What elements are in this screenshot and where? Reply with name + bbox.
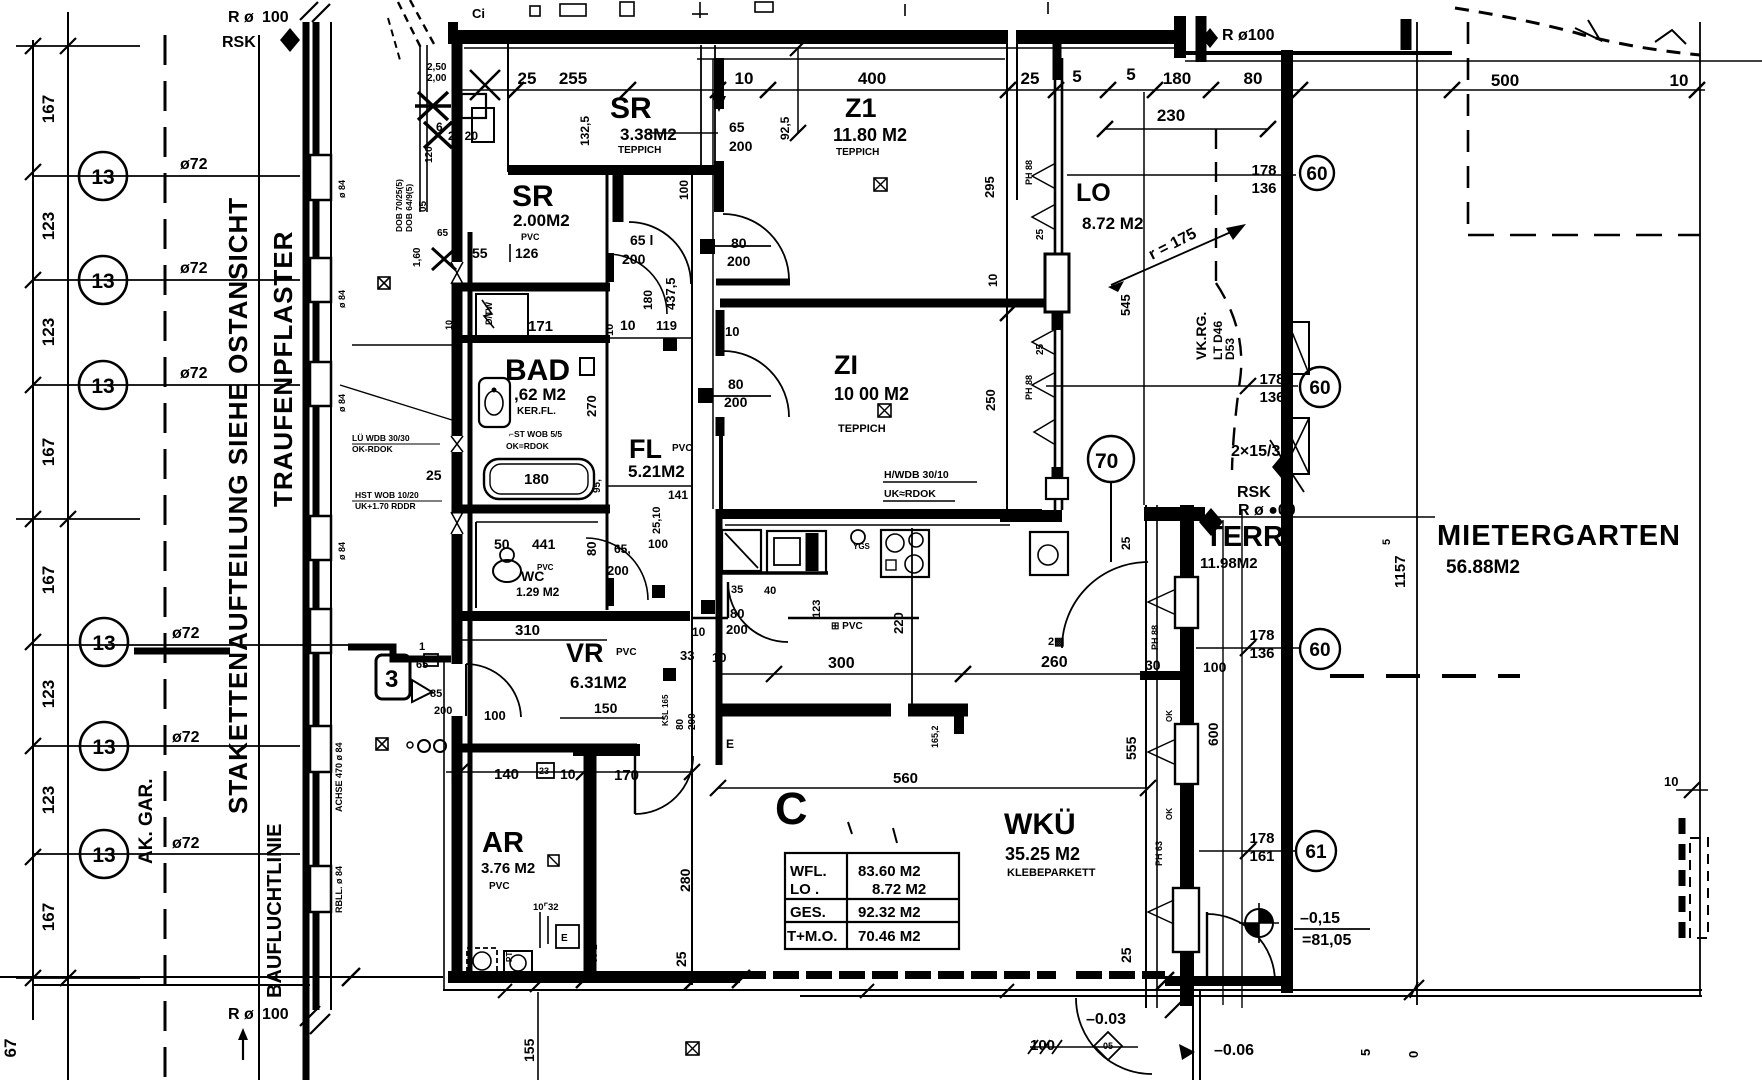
heavy wall strip xyxy=(303,22,310,1080)
svg-text:–0,15: –0,15 xyxy=(1300,910,1340,927)
svg-text:5.21M2: 5.21M2 xyxy=(628,462,685,481)
svg-text:DOB 64/9(5): DOB 64/9(5) xyxy=(404,184,414,232)
svg-text:10: 10 xyxy=(560,766,576,782)
svg-text:=81,05: =81,05 xyxy=(1302,932,1351,949)
door WKUE to TERR xyxy=(1062,562,1148,648)
svg-text:178: 178 xyxy=(1251,162,1276,179)
Z1 ROOMS xyxy=(610,40,1144,510)
svg-text:LO .: LO . xyxy=(790,881,819,898)
svg-text:13: 13 xyxy=(91,270,114,293)
svg-text:–0.03: –0.03 xyxy=(1086,1011,1126,1028)
svg-text:280: 280 xyxy=(677,868,693,892)
niche line at SR top xyxy=(507,44,509,172)
svg-text:136: 136 xyxy=(1251,180,1276,197)
svg-text:100: 100 xyxy=(484,708,506,723)
svg-text:35.25 M2: 35.25 M2 xyxy=(1005,844,1080,864)
svg-text:10: 10 xyxy=(620,317,636,333)
svg-text:YGS: YGS xyxy=(853,542,871,551)
svg-text:OK: OK xyxy=(1165,808,1174,820)
svg-text:D/TW: D/TW xyxy=(484,302,494,325)
svg-text:UK+1.70 RDDR: UK+1.70 RDDR xyxy=(355,501,416,511)
svg-text:555: 555 xyxy=(1123,736,1139,760)
svg-text:25: 25 xyxy=(1035,343,1046,355)
svg-text:VK.RG.: VK.RG. xyxy=(1193,312,1209,360)
svg-text:BAUFLUCHTLINIE: BAUFLUCHTLINIE xyxy=(264,824,286,998)
outside entrance: 3 box and walk xyxy=(348,647,451,659)
wall below BAD xyxy=(452,505,610,514)
svg-text:ø72: ø72 xyxy=(172,729,200,746)
svg-text:200: 200 xyxy=(726,622,748,637)
circled 13 grid bubbles xyxy=(79,152,128,878)
svg-text:E: E xyxy=(726,737,734,751)
svg-text:10: 10 xyxy=(986,273,1000,287)
star marks xyxy=(415,92,452,148)
svg-text:ACHSE 470 ø 84: ACHSE 470 ø 84 xyxy=(334,742,344,812)
svg-text:AR: AR xyxy=(482,827,524,859)
outer top wall heavy xyxy=(451,30,1008,44)
svg-text:250: 250 xyxy=(983,389,998,411)
inner wall line xyxy=(468,232,473,975)
area table xyxy=(785,853,959,949)
thin line under top wall xyxy=(464,47,1180,49)
svg-text:65: 65 xyxy=(416,659,428,671)
thin boundary line xyxy=(258,35,260,1080)
dims row xyxy=(494,766,639,784)
dashed rect bottom right xyxy=(1679,818,1686,945)
diamond at TERR top xyxy=(1199,508,1223,536)
svg-text:10: 10 xyxy=(725,324,739,339)
svg-text:30: 30 xyxy=(1145,657,1161,673)
svg-text:100: 100 xyxy=(648,537,668,551)
svg-text:13: 13 xyxy=(92,736,115,759)
svg-text:165,2: 165,2 xyxy=(930,725,940,748)
155 bottom left xyxy=(537,992,539,1080)
svg-text:5: 5 xyxy=(1126,65,1135,84)
washbasin xyxy=(479,378,510,427)
svg-text:D53: D53 xyxy=(1223,338,1237,360)
main dimension line xyxy=(460,89,1705,91)
vertical big labels xyxy=(136,197,298,998)
560 dim line xyxy=(718,787,1148,789)
svg-text:Z1: Z1 xyxy=(845,93,877,123)
svg-text:123: 123 xyxy=(39,786,58,814)
svg-text:200: 200 xyxy=(607,563,629,578)
svg-text:100: 100 xyxy=(262,9,289,26)
svg-text:PVC: PVC xyxy=(521,232,540,242)
wall below 171 row xyxy=(452,335,610,343)
tiny rotated labels right of wall xyxy=(334,180,347,913)
svg-text:PH 88: PH 88 xyxy=(1024,160,1034,185)
svg-text:Ci: Ci xyxy=(472,6,485,21)
small marks above top wall xyxy=(472,6,485,21)
Z1 top labels xyxy=(778,93,997,198)
svg-text:85: 85 xyxy=(430,688,442,700)
svg-text:13: 13 xyxy=(92,632,115,655)
svg-text:10⌜32: 10⌜32 xyxy=(533,902,559,913)
svg-text:95,: 95, xyxy=(592,479,603,493)
svg-text:FL: FL xyxy=(629,434,662,464)
svg-text:55: 55 xyxy=(472,245,488,261)
svg-text:40: 40 xyxy=(764,585,776,597)
AR bottom fixtures xyxy=(467,948,497,974)
svg-text:TEPPICH: TEPPICH xyxy=(618,145,661,156)
171 closet box xyxy=(476,294,528,336)
svg-text:10: 10 xyxy=(1664,774,1678,789)
dashed axis line xyxy=(164,35,167,1080)
svg-text:170: 170 xyxy=(614,767,639,784)
svg-text:200: 200 xyxy=(727,253,751,269)
svg-text:ø72: ø72 xyxy=(180,365,208,382)
svg-text:441: 441 xyxy=(532,536,556,552)
diamond 05 xyxy=(1094,1032,1122,1060)
svg-text:25: 25 xyxy=(1021,69,1040,88)
svg-text:LO: LO xyxy=(1076,179,1111,207)
svg-text:RBLL. ø 84: RBLL. ø 84 xyxy=(334,866,344,913)
svg-text:25: 25 xyxy=(426,467,442,483)
svg-text:1.29 M2: 1.29 M2 xyxy=(516,585,560,599)
svg-text:255: 255 xyxy=(559,69,587,88)
svg-text:167: 167 xyxy=(39,903,58,931)
svg-text:70.46 M2: 70.46 M2 xyxy=(858,928,921,945)
svg-text:R ø: R ø xyxy=(228,9,254,26)
svg-text:80: 80 xyxy=(731,235,747,251)
svg-text:220: 220 xyxy=(891,612,906,634)
tick lines on grid xyxy=(16,46,140,978)
dim ticks xyxy=(508,82,1705,98)
svg-text:120: 120 xyxy=(424,146,435,163)
glazing triangles xyxy=(1032,164,1054,444)
svg-text:R ø100: R ø100 xyxy=(1222,27,1275,44)
ticks bottom right xyxy=(1404,980,1424,1000)
outer left wall heavy with window gaps xyxy=(452,30,463,980)
leader lines from bubbles xyxy=(33,176,385,854)
svg-text:167: 167 xyxy=(39,438,58,466)
dashed property line right xyxy=(1467,22,1470,235)
bottom door xyxy=(1076,998,1152,1074)
main right wall xyxy=(1281,50,1293,993)
WC room xyxy=(494,536,599,599)
KITCHEN / WKUE xyxy=(692,509,1156,963)
dim texts xyxy=(518,65,1689,125)
left outside tiny labels xyxy=(352,433,419,511)
svg-text:35: 35 xyxy=(731,584,743,596)
svg-text:400: 400 xyxy=(858,69,886,88)
MIETERGARTEN xyxy=(1381,520,1681,588)
kitchen left wall xyxy=(716,509,723,765)
door arc corridor->Z1 top xyxy=(723,214,789,280)
svg-text:10 00 M2: 10 00 M2 xyxy=(834,384,909,404)
svg-text:200: 200 xyxy=(434,705,452,717)
svg-text:10: 10 xyxy=(692,625,706,639)
svg-text:60: 60 xyxy=(1306,164,1327,185)
svg-text:92.32 M2: 92.32 M2 xyxy=(858,904,921,921)
svg-text:500: 500 xyxy=(1491,71,1519,90)
svg-text:25: 25 xyxy=(1119,536,1133,550)
hatches on wall strip xyxy=(300,2,330,1034)
bottom horizontals xyxy=(0,976,443,978)
svg-text:230: 230 xyxy=(1157,106,1185,125)
heavy stub at 1400 xyxy=(1401,19,1412,50)
dim line through LO xyxy=(1143,92,1145,505)
svg-text:11.80 M2: 11.80 M2 xyxy=(833,125,907,145)
svg-text:80: 80 xyxy=(728,376,744,392)
svg-text:13: 13 xyxy=(92,844,115,867)
svg-text:HST WOB 10/20: HST WOB 10/20 xyxy=(355,490,419,500)
svg-text:2.00M2: 2.00M2 xyxy=(513,211,570,230)
fence lines top right xyxy=(1185,51,1452,55)
svg-text:70: 70 xyxy=(1095,450,1118,473)
svg-text:KER.FL.: KER.FL. xyxy=(517,406,556,417)
diamond top xyxy=(280,28,300,52)
LEFT MARGIN GRID xyxy=(0,2,443,1080)
wall below WC across corridor xyxy=(452,611,690,621)
svg-text:100: 100 xyxy=(262,1006,289,1023)
jamb below wall xyxy=(716,310,725,356)
TOP WALLS AND DIMENSION ROW xyxy=(451,2,1762,1005)
svg-text:25: 25 xyxy=(1035,228,1046,240)
wall above 171 row xyxy=(452,283,610,292)
Z1 right wall dim line xyxy=(1006,44,1008,510)
svg-text:PVC: PVC xyxy=(489,881,510,892)
svg-text:119: 119 xyxy=(656,318,677,333)
bottom lines xyxy=(443,989,1702,991)
300 260 dim line xyxy=(722,673,1148,675)
RIGHT SIDE xyxy=(342,50,1708,1080)
svg-text:10: 10 xyxy=(1670,71,1689,90)
svg-text:10: 10 xyxy=(444,320,454,330)
ticks near circle rows xyxy=(1240,378,1256,394)
svg-text:AK. GAR.: AK. GAR. xyxy=(136,779,157,865)
svg-text:LÜ WDB 30/30: LÜ WDB 30/30 xyxy=(352,433,410,443)
door jamb bar top xyxy=(613,170,624,222)
svg-text:140: 140 xyxy=(494,766,519,783)
svg-text:RSK: RSK xyxy=(1237,484,1271,501)
dimension texts rotated xyxy=(1,95,58,1058)
svg-text:⊞ PVC: ⊞ PVC xyxy=(831,621,863,632)
svg-text:300: 300 xyxy=(828,655,855,672)
survey marker xyxy=(1245,909,1273,937)
svg-text:310: 310 xyxy=(515,622,540,639)
svg-text:T+M.O.: T+M.O. xyxy=(787,928,837,945)
heavy stub on row 642 xyxy=(134,648,230,655)
window wall xyxy=(1054,58,1057,510)
svg-text:123: 123 xyxy=(39,680,58,708)
svg-text:KLEBEPARKETT: KLEBEPARKETT xyxy=(1007,867,1096,879)
LEFT ROOM STACK xyxy=(348,30,718,990)
svg-text:PH 88: PH 88 xyxy=(1150,625,1160,650)
cluster texts xyxy=(394,62,478,267)
svg-text:C: C xyxy=(775,783,808,834)
svg-text:ø72: ø72 xyxy=(180,156,208,173)
svg-text:ø72: ø72 xyxy=(172,835,200,852)
svg-text:56.88M2: 56.88M2 xyxy=(1446,557,1520,578)
WKUE labels xyxy=(775,736,1139,963)
svg-text:R ø: R ø xyxy=(228,1006,254,1023)
svg-text:65: 65 xyxy=(729,119,745,135)
svg-text:ø 84: ø 84 xyxy=(337,542,347,560)
door jamb and arc AR xyxy=(634,748,636,814)
svg-text:STAKETTENAUFTEILUNG SIEHE OS: STAKETTENAUFTEILUNG SIEHE OSTANSICHT xyxy=(223,197,253,814)
Z1 lower labels xyxy=(834,350,998,500)
svg-text:167: 167 xyxy=(39,95,58,123)
door arc corridor->Z1 lower xyxy=(723,351,789,417)
VR labels xyxy=(430,622,637,723)
svg-text:6.31M2: 6.31M2 xyxy=(570,673,627,692)
svg-text:270: 270 xyxy=(584,395,599,417)
svg-text:437,5: 437,5 xyxy=(663,277,678,310)
svg-text:KSL 165: KSL 165 xyxy=(661,694,670,726)
svg-text:100: 100 xyxy=(677,180,691,200)
top left R 100 labels xyxy=(222,9,289,1023)
svg-text:13: 13 xyxy=(91,375,114,398)
svg-text:3.76 M2: 3.76 M2 xyxy=(481,860,535,877)
svg-text:180: 180 xyxy=(524,471,549,488)
svg-text:560: 560 xyxy=(893,770,918,787)
svg-text:545: 545 xyxy=(1118,294,1133,316)
svg-text:60: 60 xyxy=(1309,378,1330,399)
svg-text:⌐ST WOB 5/5: ⌐ST WOB 5/5 xyxy=(509,429,562,439)
grid line B xyxy=(67,12,69,1080)
dia 72 labels xyxy=(172,156,208,852)
svg-text:ø 84: ø 84 xyxy=(337,290,347,308)
glazing triangles xyxy=(1148,590,1174,924)
outer face line xyxy=(443,658,445,990)
svg-text:RSK: RSK xyxy=(222,34,256,51)
jamb bars on corridor/Z1 wall xyxy=(714,58,724,109)
top-left corner stub xyxy=(448,22,458,44)
svg-text:MIETERGARTEN: MIETERGARTEN xyxy=(1437,520,1681,552)
svg-text:1,60: 1,60 xyxy=(412,247,423,267)
svg-text:25,10: 25,10 xyxy=(651,506,663,534)
svg-text:TERR: TERR xyxy=(1205,521,1284,553)
svg-text:100: 100 xyxy=(1030,1037,1055,1054)
svg-text:180: 180 xyxy=(641,290,655,310)
LO bottom wall xyxy=(1000,510,1062,522)
svg-text:10: 10 xyxy=(735,69,754,88)
svg-text:200: 200 xyxy=(729,138,753,154)
svg-text:123: 123 xyxy=(39,212,58,240)
kitchen top wall xyxy=(717,509,1042,519)
svg-text:ZI: ZI xyxy=(834,350,858,380)
svg-text:UK≈RDOK: UK≈RDOK xyxy=(884,488,936,500)
svg-text:25: 25 xyxy=(1118,947,1134,963)
svg-text:25: 25 xyxy=(673,951,689,967)
svg-text:PH 63: PH 63 xyxy=(1154,841,1164,866)
svg-text:60-L: 60-L xyxy=(589,944,599,963)
svg-text:–0.06: –0.06 xyxy=(1214,1042,1254,1059)
wall between Z1 rooms xyxy=(720,299,1048,308)
right vertical thin lines xyxy=(1416,22,1418,1005)
svg-text:65,: 65, xyxy=(614,542,631,556)
svg-text:33: 33 xyxy=(680,648,694,663)
junction ticks on bottom wall xyxy=(342,968,360,986)
svg-text:92,5: 92,5 xyxy=(778,116,792,140)
svg-text:178: 178 xyxy=(1259,371,1284,388)
svg-text:TEPPICH: TEPPICH xyxy=(838,423,886,435)
svg-text:SR: SR xyxy=(512,180,554,213)
VK RG dashed line xyxy=(1215,129,1217,283)
small box 01 xyxy=(456,94,486,118)
svg-text:80: 80 xyxy=(584,542,599,556)
svg-text:ø 84: ø 84 xyxy=(337,394,347,412)
svg-text:25: 25 xyxy=(518,69,537,88)
svg-text:123: 123 xyxy=(811,600,823,618)
svg-text:1157: 1157 xyxy=(1392,555,1409,588)
grid circles 60/61 xyxy=(1296,156,1340,871)
svg-text:60: 60 xyxy=(1309,640,1330,661)
svg-text:GES.: GES. xyxy=(790,904,826,921)
svg-text:8.72 M2: 8.72 M2 xyxy=(872,881,926,898)
svg-text:61: 61 xyxy=(1305,842,1327,863)
svg-text:11.98M2: 11.98M2 xyxy=(1200,555,1258,572)
SR 2.00 labels xyxy=(472,180,570,261)
labels 80/200 xyxy=(692,606,748,639)
svg-text:67: 67 xyxy=(1,1039,20,1058)
TERR top wall xyxy=(1144,507,1205,521)
small dim cluster over VR xyxy=(607,180,691,578)
svg-text:PT: PT xyxy=(505,952,514,962)
FL labels xyxy=(628,434,693,534)
svg-text:3.38M2: 3.38M2 xyxy=(620,125,677,144)
window X marks in gaps xyxy=(451,262,463,534)
door jamb mid xyxy=(608,253,614,282)
svg-text:80: 80 xyxy=(1244,69,1263,88)
heavy block left of 30 xyxy=(1140,671,1190,680)
svg-text:295: 295 xyxy=(982,176,997,198)
svg-text:260: 260 xyxy=(1041,654,1068,671)
svg-text:6: 6 xyxy=(436,120,443,134)
svg-text:OK-RDOK: OK-RDOK xyxy=(352,444,393,454)
diagonal ticks on grid line A xyxy=(25,38,76,986)
svg-text:SR: SR xyxy=(610,92,652,125)
window boxes in wall strip xyxy=(310,155,331,912)
svg-text:05: 05 xyxy=(418,200,429,212)
bathtub xyxy=(484,459,594,499)
svg-text:05: 05 xyxy=(1103,1041,1113,1051)
230 dim line xyxy=(1105,128,1268,130)
TERR labels xyxy=(1145,443,1296,746)
svg-text:126: 126 xyxy=(515,245,539,261)
WC door arc xyxy=(586,538,648,600)
inner verticals xyxy=(1222,520,1224,1005)
svg-text:0: 0 xyxy=(1406,1051,1421,1058)
bottom heavy walls xyxy=(448,971,740,983)
svg-text:180: 180 xyxy=(1163,69,1191,88)
LO LOGGIA xyxy=(1024,44,1298,562)
leader lines circles xyxy=(1196,647,1300,649)
svg-text:PVC: PVC xyxy=(616,647,637,658)
SR top door arc xyxy=(629,222,691,284)
svg-text:ø72: ø72 xyxy=(172,625,200,642)
corridor door dims xyxy=(724,235,1000,410)
thin double wall right of SR xyxy=(700,45,702,170)
svg-text:80: 80 xyxy=(675,718,686,730)
bottom arrow xyxy=(238,1028,248,1060)
vertical thin lines xyxy=(419,45,421,212)
diamond 2x15 xyxy=(1272,455,1292,479)
svg-text:80: 80 xyxy=(730,606,744,621)
svg-text:DOB 70/25(5): DOB 70/25(5) xyxy=(394,179,404,232)
svg-text:600: 600 xyxy=(1205,722,1221,746)
circle 70 xyxy=(1088,436,1134,482)
lines to grid circles xyxy=(1067,174,1296,176)
top right dashed scribble xyxy=(1455,8,1700,55)
corridor center line xyxy=(691,165,693,985)
svg-text:,62 M2: ,62 M2 xyxy=(514,385,566,404)
svg-text:TEPPICH: TEPPICH xyxy=(836,147,879,158)
svg-text:WKÜ: WKÜ xyxy=(1004,808,1076,841)
svg-text:OK=RDOK: OK=RDOK xyxy=(506,441,550,451)
